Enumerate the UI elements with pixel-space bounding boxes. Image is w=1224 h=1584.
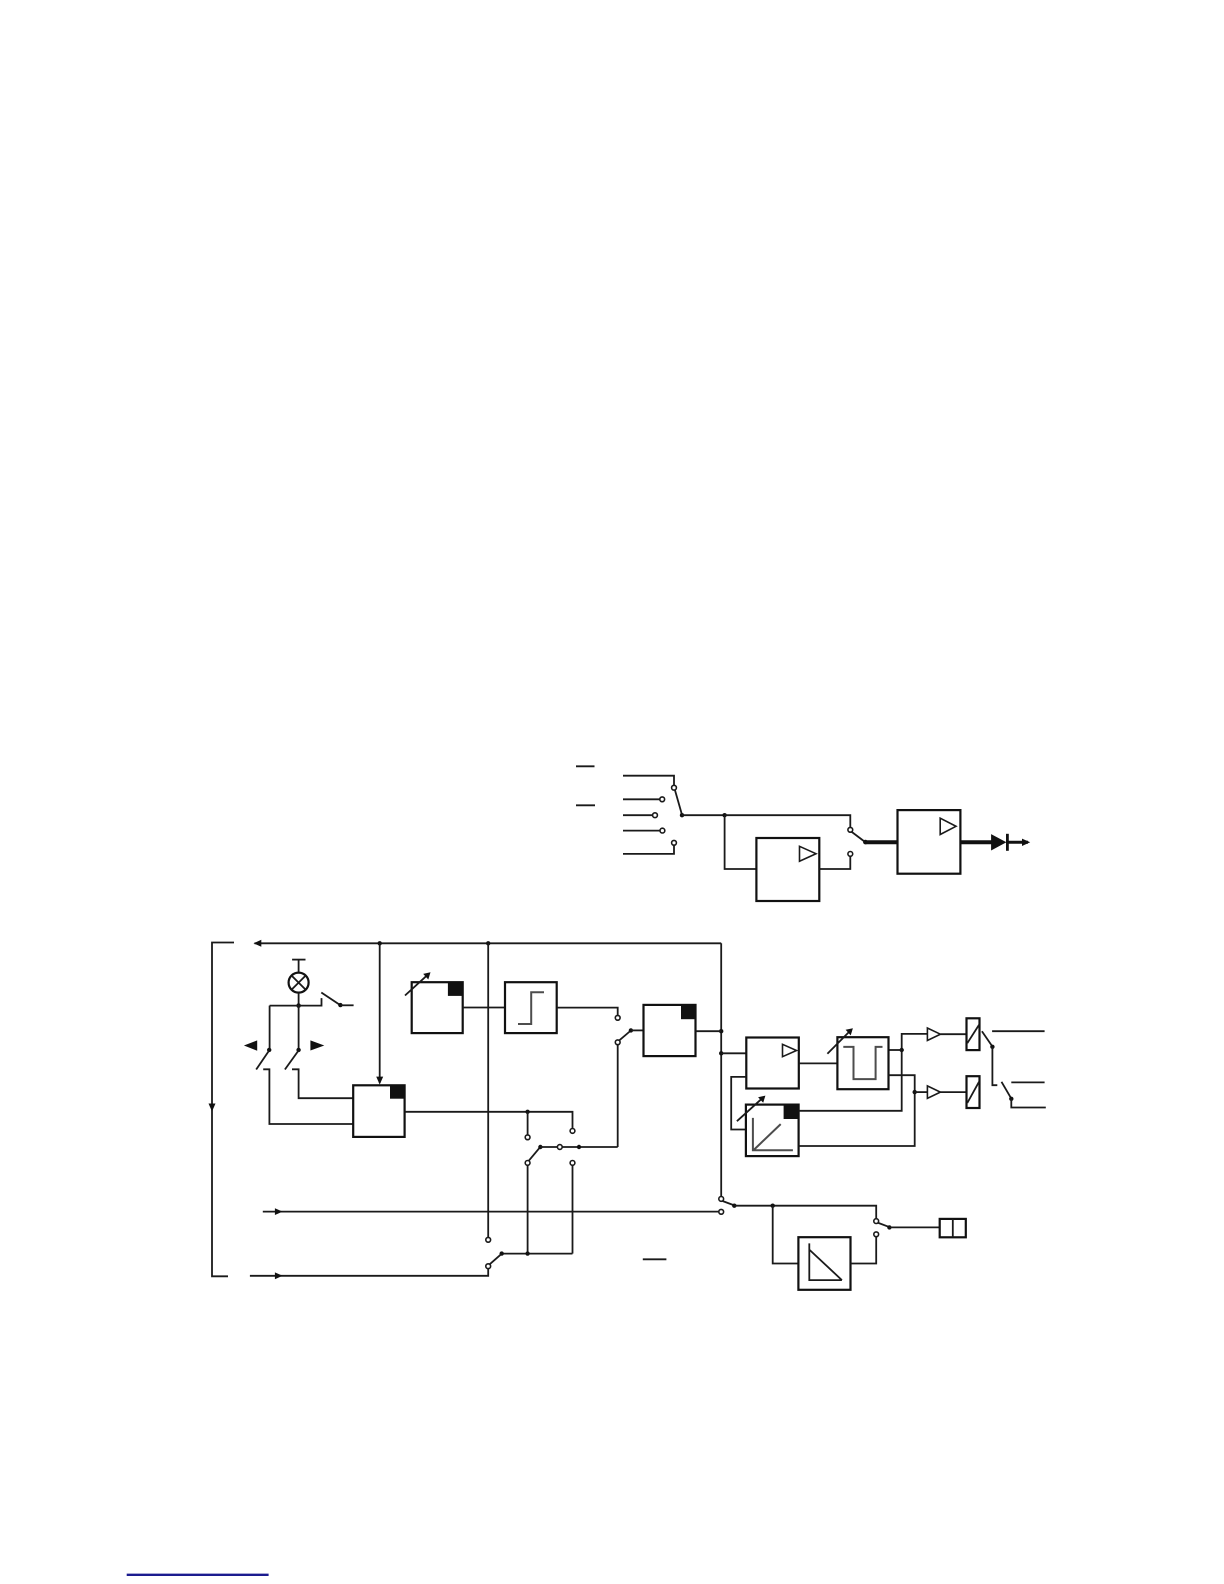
box B3 <box>644 1005 696 1056</box>
junction top rail to long vertical <box>486 941 490 945</box>
wire A1 input <box>721 1052 746 1054</box>
wire long vertical right <box>720 943 722 1196</box>
connector J1 divider <box>952 1219 954 1237</box>
contact selector position 4 <box>660 828 665 833</box>
buffer G1 triangle <box>927 1028 940 1041</box>
arrow right symbol <box>310 1040 324 1050</box>
box I1 integrator <box>798 1237 850 1290</box>
junction lamp switch <box>338 1003 342 1007</box>
wire K1 output <box>405 1112 573 1129</box>
wire junction down to contact <box>527 1112 529 1135</box>
notch glyph N1 <box>843 1047 882 1079</box>
contact switch S3 lower <box>615 1040 620 1045</box>
relay RY2 box <box>967 1076 980 1108</box>
contact selector position 3 <box>653 813 658 818</box>
wire top rail <box>255 942 722 944</box>
wire selector input 3 <box>623 814 653 816</box>
wire A1 feedback to R1 <box>731 1077 746 1130</box>
wire S6 rail right <box>562 1146 618 1148</box>
box R1 ramp <box>746 1105 799 1157</box>
lamp LP1 circle <box>289 973 309 993</box>
wire lamp switch stub <box>341 1004 353 1006</box>
amp U1 box <box>756 838 819 901</box>
wire contact left down <box>527 1165 529 1253</box>
junction buffer G2 input <box>913 1090 917 1094</box>
wire selector common <box>682 814 725 816</box>
junction S2 common <box>863 840 868 845</box>
diode D1 <box>991 834 1006 850</box>
junction notch tap upper <box>900 1048 904 1052</box>
junction S6 rail <box>577 1145 581 1149</box>
junction S4 common <box>732 1204 736 1208</box>
contact end of long vertical right <box>719 1197 724 1202</box>
amp U2 box <box>898 810 961 874</box>
wire S6 rail left <box>540 1146 557 1148</box>
relay RY1 box <box>967 1018 980 1050</box>
wire selector input 4 <box>623 830 660 832</box>
box V1 variable <box>412 982 463 1033</box>
wire R1 corner tap to buffer G1 <box>799 1034 928 1111</box>
junction S3 pivot <box>629 1028 633 1032</box>
wire S3 to B3 <box>631 1029 644 1031</box>
integrator glyph I1 <box>809 1243 842 1280</box>
contact end of long vertical left <box>486 1237 491 1242</box>
wire selector input 2 <box>623 798 660 800</box>
wire lamp to junction <box>298 993 300 1006</box>
contact selector position 5 <box>672 840 677 845</box>
node junction A <box>722 813 726 817</box>
wire U1 output to S2 lower contact <box>819 857 850 870</box>
arrow left symbol <box>244 1040 257 1050</box>
arrowhead into K1 top <box>376 1077 383 1085</box>
switch arm A <box>256 1051 269 1070</box>
lamp LP1 stem <box>298 960 300 973</box>
contact S5 lower <box>874 1232 879 1237</box>
arrow variable R1 <box>737 1098 763 1122</box>
wire S4 common to S5 upper contact <box>734 1206 876 1219</box>
junction on K1 output <box>525 1110 529 1114</box>
wire bottom rail <box>250 1269 488 1276</box>
wire B3 output <box>696 1030 722 1032</box>
junction top rail to K1 <box>378 941 382 945</box>
wire middle rail <box>263 1211 719 1213</box>
junction relay arm 2 <box>1009 1097 1013 1101</box>
arrowhead left on top rail <box>254 940 262 947</box>
contact right of K1 output <box>570 1129 575 1134</box>
buffer G2 triangle <box>927 1086 940 1099</box>
junction B3 output on vertical <box>719 1029 723 1033</box>
switch arm S4 <box>723 1201 734 1205</box>
contact left below K1 output <box>525 1135 530 1140</box>
switch arm S2 <box>852 832 865 842</box>
wire S5 to connector <box>889 1226 939 1228</box>
arrowhead down on bracket rail <box>209 1104 216 1112</box>
wire to buffer G2 <box>915 1091 928 1093</box>
contact below S6 left <box>525 1161 530 1166</box>
wire N1 lower tap to R1 output <box>799 1075 915 1146</box>
arrowhead variable R1 <box>758 1096 765 1103</box>
wire I1 output to S5 lower contact <box>851 1237 877 1264</box>
box B3 black corner <box>681 1005 696 1019</box>
ramp glyph R1 <box>753 1118 793 1150</box>
box R1 black corner <box>784 1105 799 1119</box>
node label dash position 1 <box>576 765 595 767</box>
contact selector position 2 <box>660 797 665 802</box>
wire S1 output to switch <box>557 1008 618 1016</box>
wire thick to amp U2 <box>865 840 897 844</box>
wire lamp node down to switch A <box>269 1006 271 1049</box>
box S1 step <box>505 982 557 1033</box>
wire V1 to S1 <box>463 1007 505 1009</box>
contact S4 lower <box>719 1209 724 1214</box>
junction lamp node <box>296 1003 301 1008</box>
junction A1 input on vertical <box>719 1051 723 1055</box>
wire G1 to relay RY1 <box>940 1033 966 1035</box>
arrowhead middle rail <box>275 1208 283 1215</box>
wire long vertical left <box>487 943 489 1237</box>
relay contact arm 1 <box>982 1031 992 1045</box>
junction integrator branch <box>771 1204 775 1208</box>
wire bottom link rail <box>502 1253 573 1255</box>
junction switch A pivot <box>267 1048 271 1052</box>
step glyph S1 <box>518 992 544 1024</box>
relay RY1 diagonal <box>967 1025 979 1043</box>
contact switch S3 upper <box>615 1015 620 1020</box>
junction switch B pivot <box>296 1048 300 1052</box>
wire relay link vertical <box>992 1047 997 1085</box>
wire N1 upper tap <box>889 1049 902 1051</box>
box V1 black corner <box>448 982 463 996</box>
switch arm selector S1 <box>675 790 682 814</box>
box K1 <box>353 1085 404 1137</box>
connector J1 <box>940 1219 966 1237</box>
node label dash position 2 <box>576 804 595 806</box>
lamp LP1 top bar <box>292 959 305 961</box>
contact selector position 1 <box>672 785 677 790</box>
wire selector input 1 <box>623 776 674 786</box>
lamp LP1 cross <box>292 976 306 990</box>
relay RY2 diagonal <box>967 1082 979 1103</box>
wire switch A contact to K1 input <box>263 1069 353 1124</box>
contact S6 middle <box>557 1145 562 1150</box>
wire vertical into K1 <box>379 943 381 1083</box>
junction S6 pivot <box>538 1145 542 1149</box>
junction bottom link rail <box>525 1251 529 1255</box>
wire vertical below S3 lower contact <box>617 1045 619 1147</box>
switch arm S5 <box>878 1223 889 1227</box>
amp U1 triangle symbol <box>800 846 817 861</box>
bracket left rail <box>212 943 234 1277</box>
wire lamp node down to switch B <box>298 1006 300 1049</box>
junction relay arm 1 <box>990 1045 994 1049</box>
wire branch down to amp U1 input <box>725 815 757 869</box>
wire A1 output to N1 <box>799 1062 838 1064</box>
wire lamp node horizontal <box>270 998 322 1006</box>
wire contact right down <box>572 1165 574 1253</box>
amp A1 box <box>746 1038 799 1089</box>
amp U2 triangle symbol <box>940 818 956 834</box>
box N1 notch <box>837 1037 888 1089</box>
wire output with arrow <box>1007 841 1028 844</box>
junction selector common <box>680 813 684 817</box>
relay contact arm 2 <box>1002 1082 1011 1098</box>
arrow variable V1 <box>405 974 428 995</box>
diode D1 cathode bar <box>1006 834 1009 851</box>
output line 2 <box>1011 1081 1044 1083</box>
wire bypass to switch S2 upper contact <box>725 815 851 827</box>
contact S5 upper <box>874 1219 879 1224</box>
footer link underline <box>127 1574 269 1576</box>
contact S7 moving end <box>486 1264 491 1269</box>
minus label dash <box>643 1258 667 1260</box>
arrowhead bottom rail <box>275 1272 283 1279</box>
box K1 black corner <box>390 1085 405 1098</box>
wire switch B contact to K1 input <box>292 1069 353 1098</box>
arrow variable N1 <box>827 1030 850 1053</box>
contact S2 upper <box>848 827 853 832</box>
switch arm S6 <box>529 1148 540 1161</box>
wire thick U2 output <box>960 840 991 844</box>
junction S7 pivot <box>500 1251 504 1255</box>
switch arm S3 <box>619 1031 630 1040</box>
contact S2 lower <box>848 852 853 857</box>
wire branch to integrator I1 <box>773 1206 799 1264</box>
amp A1 triangle <box>783 1044 797 1056</box>
arrowhead variable V1 <box>423 972 430 979</box>
contact below S6 right <box>570 1161 575 1166</box>
switch arm lamp switch <box>321 993 339 1005</box>
arrowhead variable N1 <box>846 1028 853 1035</box>
junction S5 common <box>887 1225 891 1229</box>
switch arm B <box>285 1051 298 1070</box>
wire G2 to relay RY2 <box>940 1091 966 1093</box>
switch arm S7 <box>490 1254 501 1264</box>
output line 1 <box>992 1030 1045 1032</box>
wire to output line 3 <box>1011 1099 1046 1108</box>
wire selector input 5 <box>623 845 674 854</box>
arrowhead output <box>1022 839 1030 846</box>
